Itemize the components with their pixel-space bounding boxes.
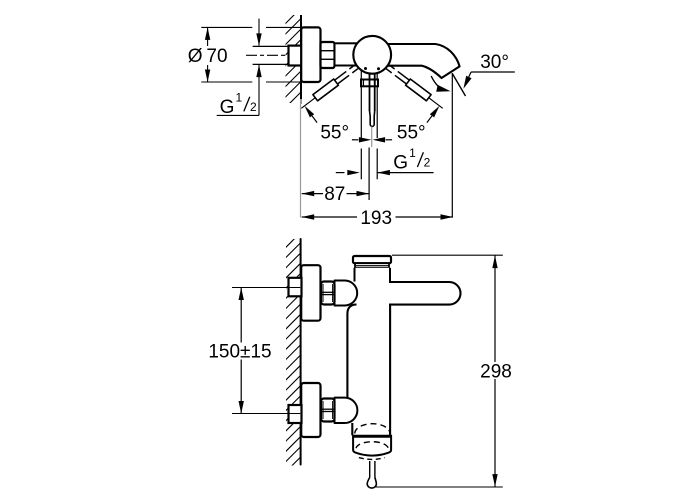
svg-text:Ø 70: Ø 70: [188, 46, 228, 67]
svg-text:150±15: 150±15: [208, 342, 271, 363]
svg-text:55°: 55°: [397, 123, 426, 144]
svg-text:87: 87: [324, 184, 345, 205]
svg-text:1: 1: [236, 91, 243, 105]
svg-text:2: 2: [424, 156, 431, 170]
svg-text:2: 2: [250, 100, 257, 114]
svg-text:G: G: [220, 97, 235, 118]
svg-text:193: 193: [360, 208, 392, 229]
svg-text:55°: 55°: [320, 123, 349, 144]
svg-text:298: 298: [480, 361, 512, 382]
svg-text:G: G: [393, 153, 408, 174]
svg-text:1: 1: [409, 146, 416, 160]
svg-text:30°: 30°: [480, 52, 509, 73]
